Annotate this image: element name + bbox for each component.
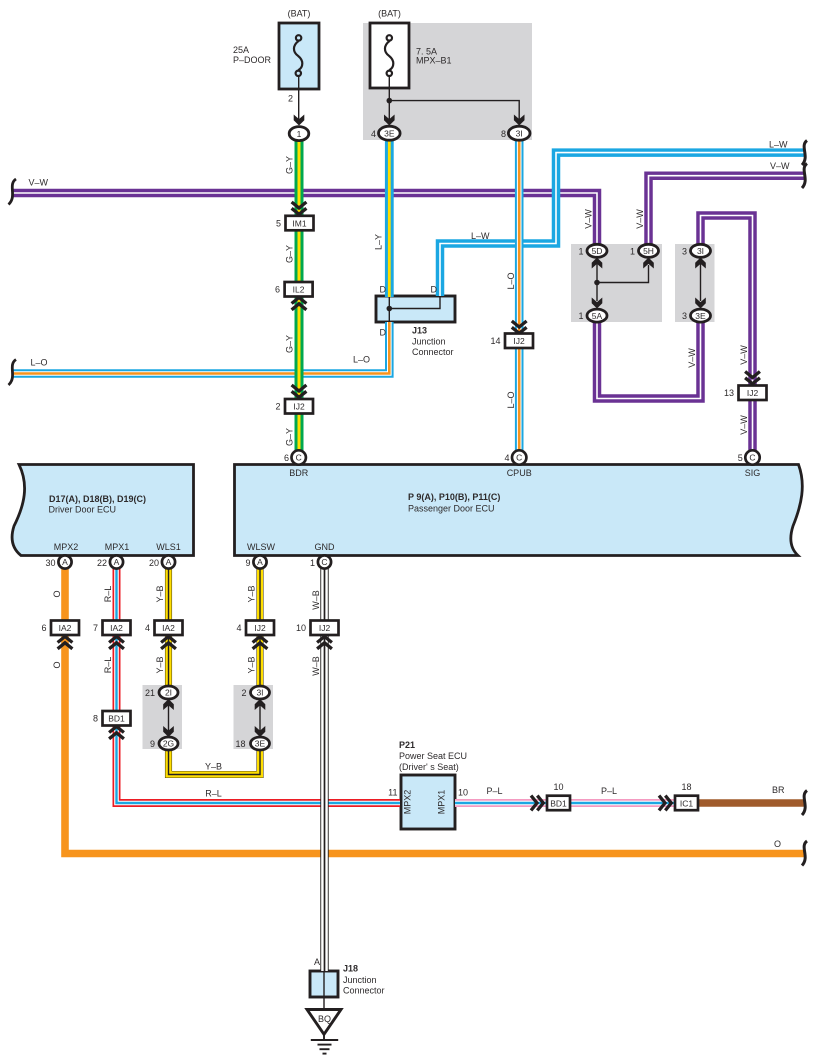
- svg-text:O: O: [52, 661, 62, 668]
- svg-text:IA2: IA2: [59, 623, 72, 633]
- svg-text:Y–B: Y–B: [205, 762, 222, 772]
- gray junction block 5D/5H/5A: [571, 244, 662, 322]
- svg-text:R–L: R–L: [205, 789, 222, 799]
- svg-text:MPX1: MPX1: [437, 790, 447, 815]
- svg-text:IA2: IA2: [110, 623, 123, 633]
- svg-text:(BAT): (BAT): [378, 9, 401, 19]
- svg-text:Driver Door ECU: Driver Door ECU: [49, 505, 117, 515]
- svg-text:P–L: P–L: [486, 786, 502, 796]
- svg-text:18: 18: [235, 739, 245, 749]
- P21 power seat ECU box: [401, 775, 455, 829]
- svg-text:14: 14: [490, 336, 500, 346]
- svg-text:1: 1: [630, 246, 635, 256]
- gray junction block 2I/2G: [143, 685, 183, 749]
- svg-text:A: A: [166, 557, 172, 567]
- svg-text:3I: 3I: [697, 246, 704, 256]
- svg-text:Y–B: Y–B: [155, 656, 165, 673]
- svg-text:BDR: BDR: [289, 468, 309, 478]
- break symbol L-O left: [9, 360, 17, 386]
- svg-text:R–L: R–L: [103, 657, 113, 674]
- oval 2G: [159, 737, 178, 750]
- oval 3E lower: [251, 737, 270, 750]
- gray relay block (fuse MPX-B1 area): [363, 23, 532, 140]
- svg-text:9: 9: [245, 558, 250, 568]
- svg-text:3I: 3I: [516, 128, 523, 138]
- svg-text:9: 9: [150, 739, 155, 749]
- svg-text:21: 21: [145, 688, 155, 698]
- connector IJ2 (13): [745, 372, 760, 384]
- svg-text:(BAT): (BAT): [288, 9, 311, 19]
- svg-text:MPX1: MPX1: [105, 542, 130, 552]
- svg-text:Y–B: Y–B: [247, 585, 257, 602]
- svg-text:L–Y: L–Y: [374, 234, 384, 250]
- svg-text:D17(A), D18(B), D19(C): D17(A), D18(B), D19(C): [49, 494, 146, 504]
- pin circle WLS1 20(A): [162, 555, 175, 568]
- svg-text:V–W: V–W: [739, 345, 749, 365]
- svg-text:WLS1: WLS1: [156, 542, 181, 552]
- svg-text:MPX2: MPX2: [403, 790, 413, 815]
- svg-text:3E: 3E: [255, 739, 266, 749]
- svg-text:L–O: L–O: [506, 272, 516, 289]
- svg-text:J13: J13: [412, 326, 427, 336]
- connector BD1 (10) on P-L: [531, 796, 543, 811]
- svg-text:A: A: [114, 557, 120, 567]
- fuse element 25A: [294, 35, 302, 76]
- svg-text:2G: 2G: [163, 739, 174, 749]
- fuse 25A P-DOOR: [279, 23, 319, 89]
- svg-text:Connector: Connector: [343, 986, 385, 996]
- svg-text:L–W: L–W: [471, 231, 490, 241]
- svg-text:V–W: V–W: [739, 415, 749, 435]
- svg-text:1: 1: [578, 311, 583, 321]
- svg-text:D: D: [380, 328, 387, 338]
- svg-text:IL2: IL2: [293, 285, 305, 295]
- svg-text:20: 20: [149, 558, 159, 568]
- wire BR from IC1 to right break: [698, 799, 804, 807]
- svg-text:J18: J18: [343, 964, 358, 974]
- wire L-O from 3I to CPUB: [515, 139, 524, 452]
- fuse 7.5A MPX-B1: [370, 23, 409, 88]
- svg-text:A: A: [257, 557, 263, 567]
- wire Y-B from WLS1 to 2I: [165, 568, 172, 687]
- svg-text:D: D: [431, 285, 438, 295]
- svg-text:2I: 2I: [165, 688, 172, 698]
- svg-text:R–L: R–L: [103, 586, 113, 603]
- wire Y-B from 2G to 3E lower: [169, 749, 261, 775]
- svg-text:8: 8: [93, 714, 98, 724]
- connector IC1 (18) on P-L: [659, 796, 671, 811]
- break symbol V-W right: [802, 164, 807, 189]
- wire V-W horizontal from right break to 5H: [649, 176, 805, 246]
- svg-text:2: 2: [241, 688, 246, 698]
- oval 3E (fuse block pin 4): [379, 126, 401, 140]
- connector BD1 (8): [103, 711, 131, 726]
- svg-text:Y–B: Y–B: [155, 585, 165, 602]
- svg-text:3E: 3E: [384, 128, 395, 138]
- svg-text:1: 1: [310, 558, 315, 568]
- svg-text:25A: 25A: [233, 45, 249, 55]
- svg-text:D: D: [380, 285, 387, 295]
- pin circle BDR 6(C): [292, 450, 306, 464]
- svg-text:3I: 3I: [256, 688, 263, 698]
- pin circle SIG 5(C): [745, 450, 759, 464]
- fuse element 7.5A: [385, 35, 393, 76]
- svg-text:IJ2: IJ2: [319, 623, 331, 633]
- svg-text:V–W: V–W: [584, 209, 594, 229]
- svg-text:6: 6: [284, 453, 289, 463]
- svg-text:10: 10: [296, 623, 306, 633]
- ground triangle BQ: [307, 1010, 341, 1035]
- wire O from MPX2 down and right to break: [65, 568, 804, 854]
- svg-text:L–O: L–O: [353, 355, 370, 365]
- wire L-W from J13 to right break: [440, 153, 804, 296]
- 3I/3E upper internal arrows: [700, 263, 702, 301]
- svg-text:V–W: V–W: [635, 209, 645, 229]
- J13 junction connector box: [376, 296, 455, 322]
- wire P-L from BD1 to IC1: [569, 799, 676, 807]
- svg-text:IC1: IC1: [680, 798, 694, 808]
- svg-text:3: 3: [682, 246, 687, 256]
- wire W-B from GND to J18: [320, 568, 328, 971]
- J18 lead to ground: [323, 997, 325, 1010]
- wire V-W from 3I to IJ2: [701, 216, 753, 388]
- svg-text:V–W: V–W: [687, 348, 697, 368]
- svg-text:IJ2: IJ2: [254, 623, 266, 633]
- svg-text:G–Y: G–Y: [285, 428, 295, 446]
- svg-text:5H: 5H: [643, 246, 654, 256]
- svg-text:P21: P21: [399, 740, 415, 750]
- svg-text:6: 6: [41, 623, 46, 633]
- svg-text:10: 10: [553, 782, 563, 792]
- svg-text:5: 5: [738, 453, 743, 463]
- svg-text:W–B: W–B: [311, 590, 321, 610]
- junction dot at fuse branch: [387, 98, 393, 104]
- break symbol V-W left: [9, 179, 17, 205]
- svg-text:Junction: Junction: [343, 975, 377, 985]
- fuse 25A lead to connector 1: [298, 76, 300, 120]
- pin circle GND 1(C): [318, 555, 331, 568]
- connector IM1 (5): [292, 202, 307, 214]
- connector IJ2 (4): [246, 621, 274, 636]
- svg-text:11: 11: [388, 788, 397, 798]
- wire R-L from MPX1 down to P21: [117, 568, 401, 803]
- gray junction block 3I/3E upper: [675, 244, 715, 322]
- svg-text:Junction: Junction: [412, 337, 446, 347]
- driver door ECU box D17/D18/D19: [12, 465, 193, 556]
- svg-text:P–L: P–L: [601, 786, 617, 796]
- wire V-W from IJ2 to SIG: [748, 399, 757, 452]
- svg-text:5A: 5A: [592, 311, 603, 321]
- svg-text:A: A: [314, 957, 320, 967]
- svg-text:O: O: [774, 839, 781, 849]
- svg-text:1: 1: [297, 129, 302, 139]
- svg-text:IJ2: IJ2: [747, 388, 759, 398]
- svg-text:CPUB: CPUB: [507, 468, 532, 478]
- svg-text:18: 18: [681, 782, 691, 792]
- connector IA2 (6): [51, 621, 79, 636]
- svg-text:Connector: Connector: [412, 347, 454, 357]
- svg-text:MPX2: MPX2: [54, 542, 79, 552]
- svg-text:L–W: L–W: [769, 140, 788, 150]
- 5D/5H/5A internal arrows: [596, 263, 598, 301]
- connector IA2 (7): [103, 621, 131, 636]
- arrowhead into 3E: [384, 115, 395, 126]
- svg-text:5D: 5D: [592, 246, 603, 256]
- oval 2I: [159, 686, 178, 699]
- svg-text:10: 10: [458, 788, 468, 798]
- svg-text:IJ2: IJ2: [513, 336, 525, 346]
- oval 3I (fuse block pin 8): [508, 126, 530, 140]
- svg-text:4: 4: [371, 129, 376, 139]
- svg-text:8: 8: [501, 129, 506, 139]
- svg-text:MPX–B1: MPX–B1: [416, 56, 452, 66]
- connector IJ2 (14): [512, 321, 527, 333]
- oval 5D: [587, 244, 607, 257]
- oval 5A: [587, 309, 607, 322]
- wire L-O horizontal from left break to J13: [13, 322, 389, 374]
- svg-text:BQ: BQ: [318, 1014, 331, 1024]
- svg-text:BD1: BD1: [108, 714, 125, 724]
- svg-text:3: 3: [682, 311, 687, 321]
- wire Y-B from WLSW to 3I lower: [256, 568, 263, 687]
- wire L-Y from 3E to J13: [385, 139, 394, 297]
- pin circle MPX2 30(A): [58, 555, 71, 568]
- oval 5H: [639, 244, 659, 257]
- connector IJ2 (2): [292, 385, 307, 397]
- svg-text:5: 5: [276, 219, 281, 229]
- break symbol L-W right: [802, 141, 807, 166]
- svg-text:WLSW: WLSW: [247, 542, 276, 552]
- svg-text:W–B: W–B: [311, 656, 321, 676]
- break symbol O right: [802, 841, 807, 866]
- svg-text:O: O: [52, 590, 62, 597]
- svg-text:C: C: [321, 557, 327, 567]
- svg-text:P–DOOR: P–DOOR: [233, 55, 272, 65]
- J13 internal wiring: [389, 297, 440, 321]
- svg-text:GND: GND: [315, 542, 336, 552]
- oval 3I lower: [251, 686, 270, 699]
- svg-text:22: 22: [97, 558, 107, 568]
- wire V-W from 5A to 3E: [597, 318, 701, 399]
- svg-text:SIG: SIG: [745, 468, 761, 478]
- svg-text:4: 4: [236, 623, 241, 633]
- svg-text:13: 13: [724, 388, 734, 398]
- svg-text:Passenger Door ECU: Passenger Door ECU: [408, 504, 495, 514]
- svg-text:7: 7: [93, 623, 98, 633]
- oval 3I upper block: [691, 244, 711, 257]
- connector IA2 (4): [155, 621, 183, 636]
- svg-text:BR: BR: [772, 785, 785, 795]
- 3I/3E lower internal arrows: [259, 704, 261, 731]
- svg-text:L–O: L–O: [506, 391, 516, 408]
- svg-text:C: C: [516, 453, 522, 463]
- svg-text:P 9(A), P10(B), P11(C): P 9(A), P10(B), P11(C): [408, 492, 500, 502]
- break symbol BR right: [802, 791, 807, 816]
- fuse 7.5A lead and branch: [389, 76, 519, 120]
- svg-text:A: A: [62, 557, 68, 567]
- svg-text:C: C: [296, 453, 302, 463]
- svg-text:IJ2: IJ2: [293, 402, 305, 412]
- svg-text:V–W: V–W: [29, 178, 49, 188]
- svg-text:6: 6: [275, 285, 280, 295]
- svg-text:4: 4: [504, 453, 509, 463]
- wire G-Y from connector 1 to BDR: [295, 138, 304, 452]
- svg-text:IA2: IA2: [162, 623, 175, 633]
- svg-text:G–Y: G–Y: [285, 335, 295, 353]
- pin circle WLSW 9(A): [253, 555, 266, 568]
- svg-text:2: 2: [275, 402, 280, 412]
- svg-text:L–O: L–O: [31, 358, 48, 368]
- svg-text:V–W: V–W: [770, 161, 790, 171]
- svg-text:2: 2: [288, 94, 293, 104]
- svg-text:(Driver' s Seat): (Driver' s Seat): [399, 762, 459, 772]
- oval connector 1: [289, 127, 309, 141]
- connector IJ2 (10): [311, 621, 339, 636]
- svg-text:Power Seat ECU: Power Seat ECU: [399, 751, 467, 761]
- pin circle CPUB 4(C): [512, 450, 526, 464]
- svg-text:C: C: [749, 453, 755, 463]
- passenger door ECU box P9/P10/P11: [235, 465, 803, 556]
- svg-text:G–Y: G–Y: [285, 245, 295, 263]
- oval 3E upper block: [691, 309, 711, 322]
- svg-text:IM1: IM1: [292, 219, 306, 229]
- wire P-L from P21 to BD1: [455, 799, 548, 807]
- pin circle MPX1 22(A): [110, 555, 123, 568]
- svg-text:3E: 3E: [695, 311, 706, 321]
- J18 junction connector box: [310, 971, 338, 997]
- svg-text:BD1: BD1: [550, 798, 567, 808]
- svg-text:4: 4: [145, 623, 150, 633]
- svg-text:G–Y: G–Y: [285, 156, 295, 174]
- svg-text:30: 30: [45, 558, 55, 568]
- gray junction block 3I/3E lower: [234, 685, 274, 749]
- svg-text:1: 1: [578, 246, 583, 256]
- 2I/2G internal arrows: [168, 704, 170, 731]
- arrowhead into 3I: [514, 115, 525, 126]
- connector IL2 (6): [285, 282, 313, 297]
- svg-text:Y–B: Y–B: [247, 656, 257, 673]
- wire V-W horizontal from left break to 5D: [13, 193, 597, 246]
- ground symbol: [311, 1032, 338, 1054]
